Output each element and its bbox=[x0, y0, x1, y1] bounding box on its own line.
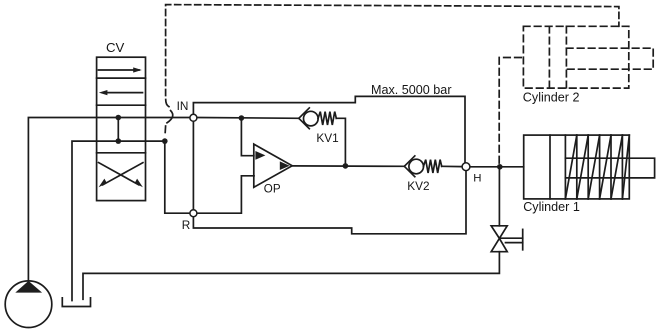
check valve KV2 bbox=[404, 156, 441, 177]
node junction: pilot joins T-line bbox=[162, 138, 168, 144]
crossed arrows in section 4 bbox=[99, 163, 139, 185]
svg-text:KV1: KV1 bbox=[316, 131, 338, 145]
rod bbox=[566, 48, 653, 69]
cylinder 2 (dashed) bbox=[523, 26, 653, 88]
wire: shut-off valve to tank drain bbox=[83, 252, 499, 300]
directional control valve CV bbox=[97, 57, 146, 200]
pump bbox=[5, 281, 52, 328]
svg-text:Max. 5000 bar: Max. 5000 bar bbox=[371, 83, 452, 97]
wire: junction down to shut-off valve bbox=[498, 167, 500, 226]
ports in centre section bbox=[116, 115, 122, 121]
check valve KV1 bbox=[299, 108, 337, 129]
wire: H to cylinder 1 bbox=[470, 166, 523, 168]
wire: Max 5000 bar rail from IN up and right to H bbox=[193, 96, 465, 162]
wire: lower rail from R to H bbox=[193, 171, 466, 234]
node junction at H branch bbox=[497, 164, 503, 170]
arrow left in section 2 bbox=[103, 92, 143, 94]
op-amp booster OP bbox=[254, 144, 292, 187]
node R bbox=[190, 210, 197, 217]
wire: dashed branch up to cylinder 2 bbox=[499, 58, 523, 164]
wire: from junction down to R rail bbox=[165, 141, 190, 213]
svg-text:IN: IN bbox=[177, 99, 189, 113]
wire: R node to OP lower input bbox=[197, 176, 254, 213]
arrow right in section 1 bbox=[99, 69, 140, 71]
node junction on OP output bbox=[343, 163, 349, 169]
wire: OP output to KV2 bbox=[292, 165, 404, 167]
wire: KV2 to node H bbox=[442, 165, 462, 167]
wire: pump line P from pump up to CV and right to IN node bbox=[28, 118, 189, 281]
svg-text:Cylinder 2: Cylinder 2 bbox=[523, 90, 580, 104]
wire: pilot dashed line from IN node up and across top bbox=[166, 5, 619, 96]
wire: junction down to OP upper input bbox=[241, 118, 253, 156]
tank bbox=[62, 298, 90, 307]
wire: tank line T from CV left to tank bbox=[72, 141, 165, 300]
node IN bbox=[190, 114, 197, 121]
svg-text:CV: CV bbox=[106, 40, 125, 55]
spring bbox=[577, 135, 623, 199]
shut-off valve bbox=[491, 226, 523, 252]
cylinder 1 bbox=[524, 135, 655, 199]
svg-text:Cylinder 1: Cylinder 1 bbox=[523, 200, 580, 214]
wire: IN to R vertical bbox=[192, 122, 194, 210]
svg-text:KV2: KV2 bbox=[407, 179, 429, 193]
wire: KV1 to OP output junction bbox=[336, 118, 345, 166]
node H bbox=[462, 163, 470, 171]
rod bbox=[565, 158, 654, 178]
wire: pilot dashed hop over P-line near IN node bbox=[166, 100, 169, 107]
svg-text:H: H bbox=[473, 172, 481, 184]
node junction on IN line bbox=[239, 115, 245, 121]
svg-text:R: R bbox=[182, 218, 191, 232]
wire: IN node to KV1 with junction bbox=[197, 117, 298, 120]
svg-text:OP: OP bbox=[264, 182, 281, 195]
